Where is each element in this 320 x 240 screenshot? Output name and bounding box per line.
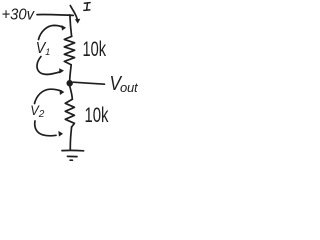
svg-text:+30v: +30v — [2, 7, 35, 24]
svg-text:2: 2 — [38, 109, 45, 120]
svg-text:10k: 10k — [83, 38, 107, 61]
svg-text:out: out — [120, 80, 139, 95]
svg-text:10k: 10k — [85, 103, 109, 127]
svg-text:1: 1 — [45, 47, 50, 57]
